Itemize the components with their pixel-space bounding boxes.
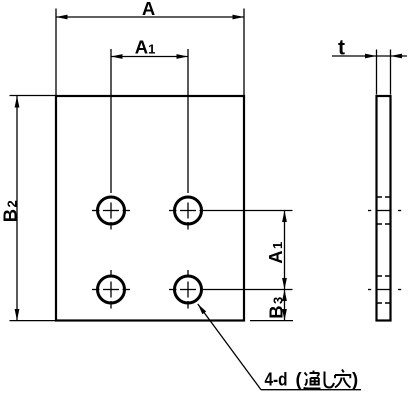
side view hidden line top hole lower bbox=[378, 223, 390, 225]
hole top-left bbox=[98, 197, 125, 224]
dimension A line bbox=[56, 16, 244, 18]
svg-text:4-d: 4-d bbox=[265, 369, 288, 390]
side view outline bbox=[377, 96, 391, 321]
leader line diagonal bbox=[198, 304, 261, 390]
hole top-right bbox=[175, 197, 202, 224]
hole top-right centerlines bbox=[169, 203, 196, 230]
dimension B2 arrow top bbox=[15, 96, 20, 108]
dimension A1 top line bbox=[111, 56, 188, 58]
dimension A1 right line bbox=[284, 211, 286, 290]
kanji 穴 bbox=[335, 370, 351, 388]
plate outline (front view) bbox=[56, 96, 244, 321]
svg-text:): ) bbox=[352, 369, 358, 390]
svg-text:t: t bbox=[338, 37, 345, 60]
side view centerline top hole bbox=[368, 210, 401, 212]
dimension t arrow right bbox=[391, 54, 403, 59]
svg-text:A: A bbox=[142, 0, 155, 19]
dimension A1 right extension line bottom bbox=[200, 289, 293, 291]
dimension B3 extension line bottom bbox=[250, 320, 293, 322]
dimension B3 line bbox=[284, 290, 286, 321]
dimension A arrow left bbox=[56, 15, 68, 20]
dimension B2 line bbox=[16, 96, 18, 321]
svg-text:(: ( bbox=[296, 369, 303, 390]
dimension t line bbox=[332, 55, 407, 57]
dimension A1 right arrow top bbox=[282, 211, 287, 223]
hole bottom-left centerlines bbox=[92, 270, 130, 309]
side view hidden line bottom hole upper bbox=[378, 275, 390, 277]
dimension A1 right extension line top bbox=[200, 210, 293, 212]
hole top-left centerlines bbox=[92, 203, 130, 230]
hole bottom-right bbox=[175, 276, 202, 303]
dimension B3 arrow bottom bbox=[282, 309, 287, 321]
dimension A extension line right bbox=[243, 9, 245, 96]
side view hidden line top hole upper bbox=[378, 196, 390, 198]
dimension t extension line left bbox=[376, 50, 378, 95]
hole bottom-left bbox=[98, 276, 125, 303]
dimension B2 arrow bottom bbox=[15, 309, 20, 321]
dimension A1 top extension line right bbox=[187, 49, 189, 193]
dimension B2 extension line top bbox=[10, 95, 56, 97]
hole bottom-right centerlines bbox=[169, 270, 196, 309]
dimension B3 arrow top bbox=[282, 290, 287, 302]
dimension A arrow right bbox=[233, 15, 245, 20]
dimension A1 top arrow left bbox=[111, 54, 123, 59]
kanji 通 bbox=[304, 371, 321, 389]
dimension t extension line right bbox=[390, 50, 392, 95]
leader line horizontal bbox=[261, 389, 361, 391]
side view centerline bottom hole bbox=[368, 289, 401, 291]
dimension A1 right arrow bottom bbox=[282, 278, 287, 290]
dimension t arrow left bbox=[365, 54, 377, 59]
dimension B2 extension line bottom bbox=[10, 320, 56, 322]
side view hidden line bottom hole lower bbox=[378, 302, 390, 304]
dimension A extension line left bbox=[55, 9, 57, 96]
kanji shi bbox=[325, 372, 335, 388]
dimension A1 top extension line left bbox=[110, 49, 112, 193]
leader arrowhead at bottom-right hole bbox=[198, 304, 206, 314]
dimension A1 top arrow right bbox=[177, 54, 189, 59]
